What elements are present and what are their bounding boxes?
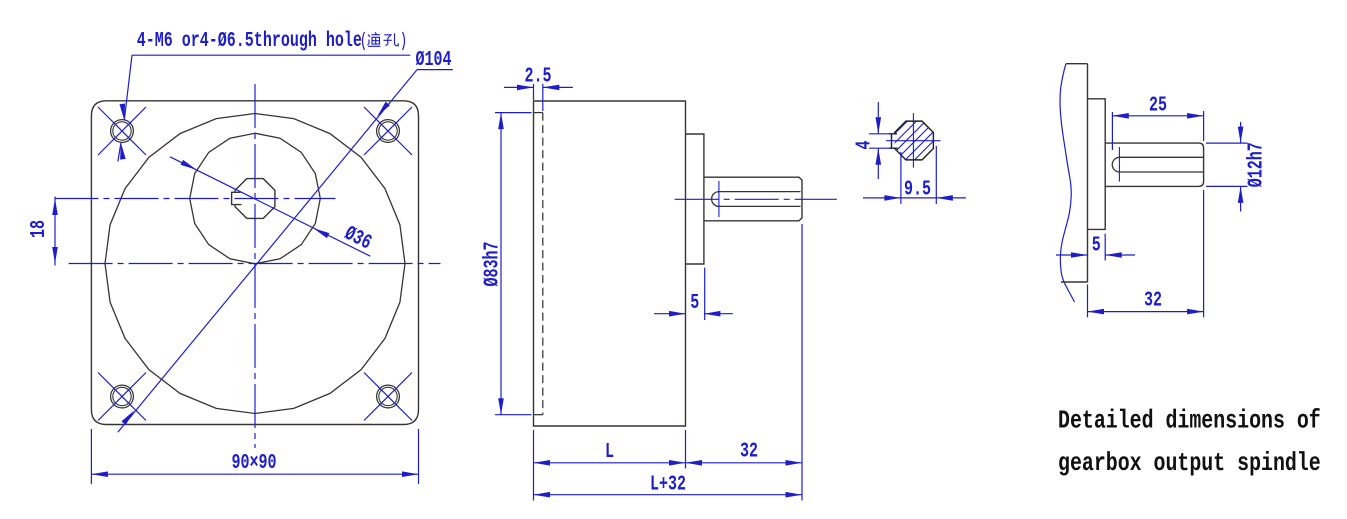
svg-text:Ø104: Ø104	[416, 49, 452, 72]
svg-text:9.5: 9.5	[904, 178, 931, 201]
svg-text:90×90: 90×90	[231, 452, 276, 475]
svg-text:Ø83h7: Ø83h7	[481, 241, 504, 286]
svg-text:Ø36: Ø36	[340, 223, 374, 256]
svg-text:4-M6 or4-Ø6.5through hole: 4-M6 or4-Ø6.5through hole	[137, 30, 362, 53]
svg-text:gearbox output spindle: gearbox output spindle	[1058, 448, 1321, 477]
svg-text:Detailed dimensions of: Detailed dimensions of	[1058, 406, 1321, 435]
svg-text:5: 5	[1092, 234, 1101, 257]
svg-text:L+32: L+32	[650, 474, 686, 497]
svg-text:Ø12h7: Ø12h7	[1245, 142, 1268, 187]
svg-text:5: 5	[690, 292, 699, 315]
svg-text:L: L	[605, 441, 614, 464]
svg-text:25: 25	[1149, 94, 1167, 117]
svg-text:32: 32	[1144, 289, 1162, 312]
svg-text:32: 32	[740, 440, 758, 463]
svg-text:2.5: 2.5	[524, 65, 551, 88]
svg-text:4: 4	[853, 140, 876, 149]
svg-text:18: 18	[28, 220, 51, 238]
